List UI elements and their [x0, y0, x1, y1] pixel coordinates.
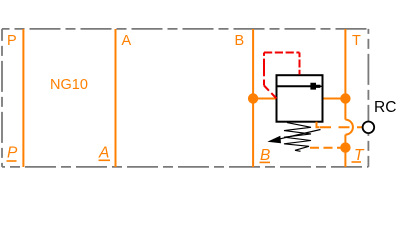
- spring of relief valve: [284, 123, 311, 152]
- junction node on B line: [248, 93, 258, 103]
- plate outline, right edge: [367, 29, 369, 167]
- wire: T line (upper): [344, 29, 346, 120]
- svg-text:P: P: [7, 33, 17, 49]
- drain/vent line from valve to RC port (orange dashed): [320, 126, 363, 128]
- junction node on T line (lower): [340, 142, 350, 152]
- svg-text:A: A: [122, 33, 132, 49]
- svg-text:P: P: [7, 145, 18, 162]
- svg-text:B: B: [235, 33, 245, 49]
- wire: valve outlet to T line: [323, 98, 346, 100]
- svg-text:NG10: NG10: [50, 77, 88, 93]
- spring chamber drain line to T (orange dashed): [310, 147, 345, 149]
- plate outline, left edge: [1, 29, 3, 167]
- T-line crossover hop over RC drain line: [345, 120, 353, 135]
- pilot line (red dashed) from valve inlet to top of valve: [264, 86, 277, 99]
- drain/vent elbow at valve bottom: [317, 122, 320, 128]
- plate outline (sandwich plate boundary), top edge: [2, 28, 368, 30]
- svg-text:RC: RC: [374, 99, 396, 116]
- svg-text:T: T: [352, 33, 361, 49]
- wire: B port to valve inlet: [253, 98, 276, 100]
- junction node on T line (upper): [340, 93, 350, 103]
- svg-text:A: A: [98, 145, 109, 162]
- wire: A line: [115, 29, 117, 167]
- plate outline, bottom edge: [2, 166, 368, 168]
- wire: P line: [22, 29, 24, 167]
- RC external port circle: [363, 122, 375, 134]
- wire: T line (lower): [344, 135, 346, 167]
- adjustment arrow across spring: [278, 130, 321, 140]
- wire: B line: [252, 29, 254, 167]
- flow arrow inside valve: [278, 85, 313, 87]
- relief valve V1 body: [277, 75, 323, 122]
